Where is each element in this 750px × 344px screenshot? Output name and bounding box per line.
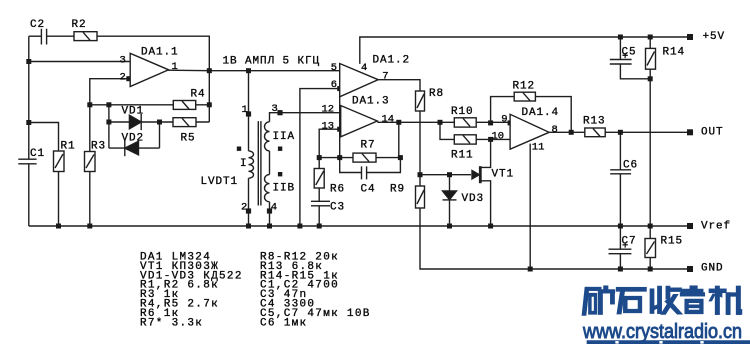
junction R3 R4 row [87,102,92,107]
capacitor C7 polarized [609,249,632,254]
svg-text:VT1: VT1 [492,169,515,181]
logo char kuang [582,287,589,315]
wire R3 bottom [89,172,91,227]
svg-text:DA1.1: DA1.1 [141,47,179,59]
junction pin6 [337,86,342,91]
junction OUT C6 [618,130,623,135]
svg-text:12: 12 [322,104,335,116]
junction VD3 top [447,172,452,177]
svg-text:VD2: VD2 [122,132,145,144]
junction VD1 right [157,120,162,125]
svg-text:5: 5 [331,62,337,74]
wire primary top lead [248,71,250,151]
wire VD network left column [108,105,110,148]
terminal OUT [687,129,693,135]
terminal +5V [687,34,693,40]
wire VD2 row [109,147,160,149]
svg-text:C4: C4 [361,184,376,196]
resistor R6 [314,169,324,189]
svg-text:7: 7 [382,71,388,83]
wire R9 bottom to GND row [420,208,530,269]
junction pin9 [508,120,513,125]
svg-text:9: 9 [501,114,507,126]
wire C3 bottom [318,206,320,226]
junction DA1.4 out [569,130,574,135]
svg-text:R13: R13 [583,115,606,127]
wire R12 loop [491,97,572,133]
wire VD3 bottom [449,200,451,226]
svg-text:R6: R6 [330,184,345,196]
junction DA1.1 out top [207,68,212,73]
wire C7 branch [619,226,621,269]
junction DA1.3 out [396,120,401,125]
svg-text:www.crystalradio.cn: www.crystalradio.cn [582,321,742,343]
wire GND row [530,268,687,270]
wire bottom Vref rail [29,225,687,227]
junction GND R15 [648,267,653,272]
svg-text:C1: C1 [30,148,45,160]
wire primary bottom lead [248,178,250,226]
op-amp DA1.4 [510,114,549,149]
wire C5 branch [620,37,650,79]
resistor R10 [454,118,476,127]
svg-text:R4: R4 [191,89,206,101]
wire VT1 drain to pin10 [481,139,491,167]
wire C2 to R2 [47,35,74,37]
svg-text:R12: R12 [513,81,536,93]
junction rail VT1 source [488,224,493,229]
capacitor C2 [41,29,46,45]
op-amp DA1.2 [340,64,379,97]
wire R1 bottom [58,172,60,227]
svg-text:C6 1мк: C6 1мк [260,317,307,329]
wire pin3 input [29,61,130,63]
svg-text:1: 1 [172,61,178,73]
svg-text:1В АМПЛ 5 КГЦ: 1В АМПЛ 5 КГЦ [223,55,321,67]
svg-text:R1: R1 [61,141,76,153]
wire DA1.4 output row to OUT [549,131,687,133]
capacitor C5 polarized [610,60,632,65]
resistor R11 [454,135,476,144]
transformer secondary IIB coil [265,175,270,202]
wire R6 bottom to C3 [318,188,320,201]
transformer LVDT1 primary coil [249,151,254,178]
wire DA1.1 output vertical [208,71,210,122]
wire R4 row [90,104,210,106]
junction +5V R14 [648,35,653,40]
wire secondary bottom lead [269,202,271,226]
svg-text:R2: R2 [72,19,87,31]
svg-text:3: 3 [272,103,278,115]
diode VD2 [125,141,139,155]
wire C4 branch [340,158,401,173]
svg-text:2: 2 [241,202,247,214]
node phasing dot primary [237,147,241,151]
terminal Vref [687,223,693,229]
svg-text:LVDT1: LVDT1 [201,176,239,188]
svg-text:C2: C2 [30,19,45,31]
svg-text:IIA: IIA [273,131,296,143]
pad pin1 primary [246,111,251,116]
wire DA1.4 pin11 ground [529,144,531,269]
wire DA1.3 output row [377,121,510,123]
wire pin13 branch [319,129,341,157]
resistor R12 [514,92,535,101]
diode VD1 [129,115,141,129]
pad pin4 secondary [267,208,272,213]
junction rail secondary [267,224,272,229]
junction pin10 [488,137,493,142]
junction pin13 [337,127,342,132]
svg-text:3: 3 [120,55,126,67]
junction VD1 left [106,120,111,125]
wire R2 to corner to DA1.1 output [97,36,209,70]
diode VD3 [443,191,457,200]
terminal GND [687,266,693,272]
svg-text:R14: R14 [663,47,686,59]
svg-text:+5V: +5V [703,31,726,43]
resistor R14 [646,48,656,69]
resistor R15 [645,239,656,258]
wire R8 bottom to R9 top [419,111,421,186]
logo char shou [650,289,654,314]
svg-text:C3: C3 [330,202,345,214]
transistor VT1 [472,171,479,179]
svg-text:13: 13 [322,120,335,132]
wire pin6 to pin13 tie [339,89,341,158]
wire R11 branch [440,122,510,139]
junction R1 tap [26,120,31,125]
svg-text:+: + [622,240,628,252]
wire VD3 top [449,175,451,191]
junction primary top [246,68,251,73]
resistor R2 [74,32,97,41]
svg-text:DA1.3: DA1.3 [352,95,390,107]
wire R6 top [318,158,320,169]
junction GND C7 [618,267,623,272]
svg-text:C6: C6 [623,159,638,171]
node phasing dot IIB [278,172,282,176]
wire C6 [619,132,621,226]
wire R14 bottom vertical to rail [649,69,651,226]
logo char ji [709,289,726,293]
svg-text:I: I [240,158,248,170]
wire R7 row [319,157,400,159]
transformer core [258,121,261,205]
junction VD column top [106,102,111,107]
junction GND pin11 [528,267,533,272]
wire gate row [420,174,471,176]
junction C2 corner pin3 [26,59,31,64]
svg-text:10: 10 [492,131,505,143]
wire VT1 source to rail [481,181,491,226]
wire pin6 ground branch [300,89,340,226]
junction R10 left [438,120,443,125]
svg-text:8: 8 [552,124,558,136]
op-amp DA1.3 [341,106,378,137]
svg-text:Vref: Vref [701,220,731,232]
wire VD1 R5 row [109,121,209,123]
svg-text:GND: GND [701,263,724,275]
wire R14 top [649,37,651,48]
svg-text:14: 14 [382,114,395,126]
svg-text:R8: R8 [429,88,444,100]
pad pin2 primary [246,208,251,213]
wire secondary top lead to pin12 [270,113,341,122]
junction C5 R14 [648,76,653,81]
transformer secondary IIA coil [265,122,270,151]
junction R7 right [398,155,403,160]
capacitor C1 [18,159,36,164]
wire DA1.2 pin4 to +5V rail [360,37,690,64]
junction rail C3 [317,224,322,229]
logo char yin [690,286,697,290]
svg-text:R10: R10 [451,106,474,118]
junction R7 mid tie [337,155,342,160]
wire pin7 to R8 [378,80,420,91]
junction rail pin6 [297,224,302,229]
junction rail R14 R15 [648,224,653,229]
junction R7 left [317,155,322,160]
junction rail C6 C7 [618,224,623,229]
resistor R13 [585,128,605,137]
svg-text:R15: R15 [661,236,684,248]
junction rail VD3 [447,224,452,229]
resistor R7 [353,153,376,162]
logo char shi [616,287,646,291]
svg-text:DA1.2: DA1.2 [373,55,411,67]
wire secondary mid [269,151,271,175]
resistor R4 [173,101,195,110]
pad pin3 secondary [277,110,282,115]
junction pin2 node [126,76,131,81]
wire VD network right column [159,122,161,148]
resistor R3 [85,152,96,172]
junction rail primary [246,224,251,229]
wire output to feedback vertical [398,122,400,157]
resistor R5 [173,118,196,127]
junction R8 R9 gate [418,172,423,177]
wire to R1 top [29,123,59,152]
junction R10 right [488,120,493,125]
capacitor C6 [610,170,631,174]
svg-text:R9: R9 [390,184,405,196]
svg-text:VD3: VD3 [462,193,485,205]
capacitor C4 [362,166,367,179]
wire R15 branch [649,226,651,269]
svg-text:OUT: OUT [701,126,724,138]
op-amp DA1.1 [130,53,168,86]
resistor R9 [416,186,425,208]
capacitor C3 [311,201,330,206]
svg-text:4: 4 [271,202,277,214]
svg-text:DA1.4: DA1.4 [522,107,560,119]
svg-text:R11: R11 [451,150,474,162]
svg-text:+: + [622,51,628,63]
svg-text:6: 6 [331,79,337,91]
svg-text:R7: R7 [361,140,376,152]
logo cropped band [587,341,750,344]
wire left vertical rail [28,36,30,226]
svg-text:R5: R5 [181,132,196,144]
wire top feedback left to C2 [29,35,41,37]
svg-text:R7* 3.3к: R7* 3.3к [140,317,203,329]
junction R4 right [207,102,212,107]
svg-text:R3: R3 [91,141,106,153]
svg-text:IIB: IIB [273,183,296,195]
junction rail R1 [56,224,61,229]
svg-text:1: 1 [242,104,248,116]
wire pin2 to R3 column [90,79,129,152]
junction +5V C5 [618,35,623,40]
node phasing dot IIA [278,147,282,151]
junction rail R3 [87,224,92,229]
svg-text:4: 4 [361,62,367,74]
resistor R8 [416,91,425,111]
svg-text:VD1: VD1 [122,105,145,117]
resistor R1 [54,151,65,172]
svg-text:2: 2 [120,72,126,84]
svg-text:11: 11 [532,142,545,154]
wire DA1.1 output row to pin5 [168,69,340,72]
